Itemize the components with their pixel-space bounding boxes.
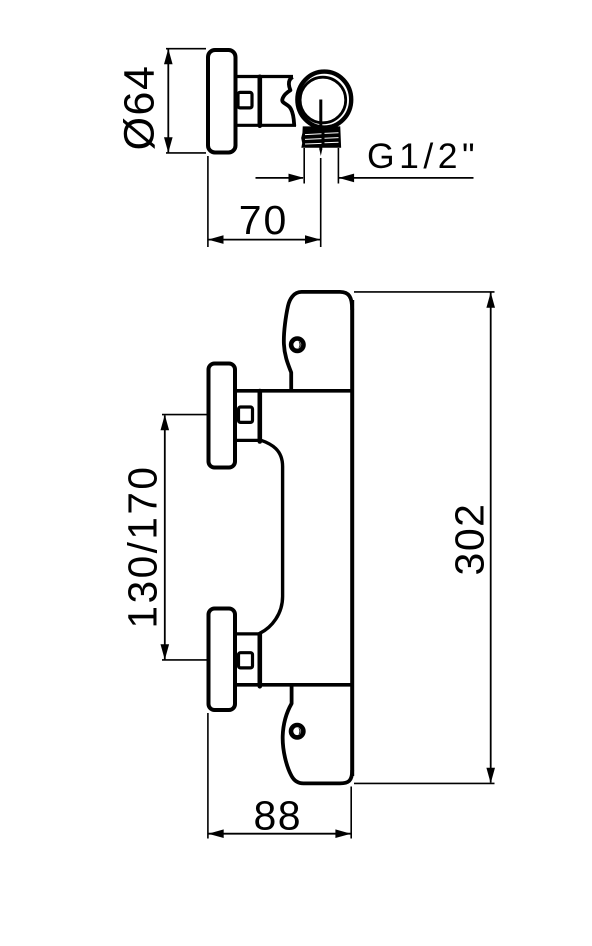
wall plate right vertical line [350,300,354,776]
dimension 302 bottom extension line [354,782,495,784]
body S-curve left profile upper [260,440,283,634]
dimension G1/2 right tail line [339,177,474,179]
connector inner rectangle (top view) [238,92,252,108]
dimension 302 arrow up [486,292,495,308]
top escutcheon cap [284,292,352,391]
dimension 130/170 arrow up [161,415,170,431]
body top horizontal line [236,389,352,393]
dimension Ø64 arrow down [164,137,173,153]
dimension 70 right extension line [320,158,322,247]
bottom connector flange [257,634,262,686]
dimension 88 line [209,833,351,835]
dimension G1/2 right extension line [337,148,339,184]
boss cast profile left of outlet [282,77,294,126]
dimension 302 arrow down [486,768,495,784]
dimension 70 arrow right [305,235,321,244]
top handle knob disc (front view) [209,364,236,468]
connector flange (top view) [257,77,262,126]
connector top edge (top view) [236,75,260,78]
dimension 88 right extension line [350,787,352,839]
top connector flange [257,391,262,442]
dimension G1/2 arrow pointing right [289,174,305,183]
handle knob disc (top view) [208,50,236,153]
outlet center line taper tip [319,149,322,156]
dimension 70 line [209,239,321,241]
dimension G1/2 left extension line [303,148,305,184]
dimension 302 top extension line [354,291,495,293]
top connector bottom edge [236,439,260,442]
bottom connector inner rectangle [239,653,253,668]
body top edge (top view) [260,75,294,78]
thread groove white lines [305,133,322,136]
threaded nipple G1/2 [302,127,340,147]
dimension G1/2 left tail line [256,177,304,179]
dimension G1/2 arrow pointing left [339,174,355,183]
svg-text:Ø64: Ø64 [116,65,164,151]
dimension Ø64 bottom extension line [166,152,206,154]
svg-text:G1/2": G1/2" [367,136,479,176]
dimension 70 arrow left [208,235,224,244]
outlet outer circle [297,72,351,128]
outlet center line [319,100,322,150]
svg-text:130/170: 130/170 [120,465,166,629]
body bottom horizontal line [236,683,352,687]
svg-text:88: 88 [253,792,302,838]
dimension 130/170 line [164,416,166,660]
bottom connector top edge [236,632,260,635]
svg-text:70: 70 [239,197,289,243]
connector bottom edge (top view) [236,124,260,127]
body bottom edge (top view) [260,124,297,127]
dimension 302 line [490,293,492,783]
svg-text:302: 302 [447,503,493,576]
bottom handle knob disc (front view) [209,609,236,711]
bottom mounting screw [291,725,303,737]
top connector inner rectangle [239,407,253,422]
bottom escutcheon cap [283,685,353,783]
dimension Ø64 line [167,50,169,153]
dimension Ø64 top extension line [166,48,206,50]
dimension 130/170 top extension line [162,414,207,416]
outlet inner circle [300,77,346,123]
top screw inner crescent [298,341,300,348]
top mounting screw [291,339,303,351]
dimension 70 left extension line [207,156,209,247]
dimension Ø64 arrow up [164,49,173,65]
bottom screw inner crescent [298,728,300,735]
dimension 88 arrow left [208,829,224,838]
dimension 130/170 bottom extension line [162,659,207,661]
dimension 88 left extension line [207,713,209,839]
dimension 88 arrow right [335,829,351,838]
dimension 130/170 arrow down [161,644,170,660]
